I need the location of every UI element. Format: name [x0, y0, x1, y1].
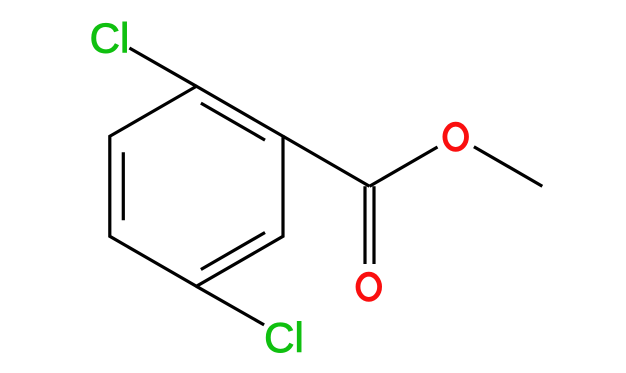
svg-text:Cl: Cl [264, 314, 304, 361]
wire: ring bond C-D inner aromatic line [201, 233, 265, 270]
wire: bond carbonyl C to ester O [370, 147, 438, 186]
svg-text:Cl: Cl [90, 14, 130, 61]
benzene ring (outer hexagon) [110, 86, 283, 286]
wire: bond D to Cl (bottom) [196, 286, 264, 325]
wire: ring bond A-B inner aromatic line [201, 103, 265, 140]
wire: carbonyl C=O double bond line 2 [372, 186, 375, 264]
wire: bond ester O to methyl [474, 147, 542, 187]
wire: ring bond E-F inner aromatic line [122, 152, 125, 220]
atom label O (ester, top) [445, 124, 467, 149]
wire: bond A to Cl (top) [129, 48, 196, 86]
wire: carbonyl C=O double bond line 1 [363, 186, 366, 264]
wire: bond B to carbonyl C [283, 136, 370, 186]
atom label O (carbonyl, bottom) [358, 274, 380, 299]
